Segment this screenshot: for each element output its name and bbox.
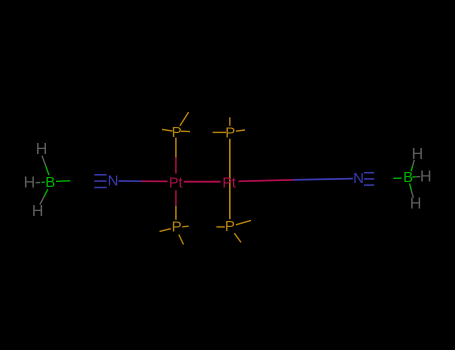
svg-text:N: N xyxy=(108,173,119,190)
svg-text:H: H xyxy=(412,146,424,163)
wire B-C (left, green) xyxy=(56,180,70,183)
methyl of P4 up-right xyxy=(236,220,251,224)
triple bond N#C right line1 xyxy=(364,172,374,174)
svg-text:H: H xyxy=(32,203,44,220)
svg-text:N: N xyxy=(353,170,364,187)
svg-text:H: H xyxy=(410,196,422,213)
wire H-B (left left H to B, green half) xyxy=(42,181,45,183)
wire N-Pt (left, crimson half) xyxy=(142,180,168,182)
methyl of P1 left xyxy=(162,129,172,131)
bond Pt-Pt xyxy=(184,181,221,183)
wire B-H (right right, green half) xyxy=(412,176,416,178)
methyl of P3 up xyxy=(229,117,231,126)
wire B-H (left bottom, green half) xyxy=(44,189,48,197)
triple bond C#N left line3 xyxy=(94,187,106,189)
wire Pt-N (right, blue half) xyxy=(294,179,353,180)
wire C-B (right, green) xyxy=(393,177,401,179)
methyl of P2 right xyxy=(182,225,189,228)
svg-text:P: P xyxy=(225,124,235,141)
svg-text:P: P xyxy=(225,218,235,235)
wire N-Pt (left, blue half) xyxy=(119,180,142,182)
svg-text:Pt: Pt xyxy=(169,174,183,191)
wire H-B (left top H to B, upper gray half) xyxy=(42,156,46,166)
wire H-B (left left H to B, gray half) xyxy=(36,182,41,184)
svg-text:B: B xyxy=(403,169,413,186)
methyl of P2 left xyxy=(160,229,171,232)
bond Pt1-P1 (up, crimson half) xyxy=(175,157,177,173)
bond Pt2-P3-P4 (continuous orange vertical) xyxy=(229,139,231,219)
svg-text:H: H xyxy=(36,141,48,158)
wire B-H (left bottom, gray half) xyxy=(40,197,44,205)
svg-text:Pt: Pt xyxy=(222,175,236,192)
svg-text:P: P xyxy=(172,218,182,235)
wire Pt-N (right, crimson half) xyxy=(238,180,293,181)
triple bond C#N left line1 xyxy=(94,174,106,176)
svg-text:H: H xyxy=(420,168,432,185)
wire B-H (right bottom, green half) xyxy=(410,183,412,190)
wire H-B (left top H to B, lower green half) xyxy=(46,166,49,176)
svg-text:P: P xyxy=(172,124,182,141)
wire B-H (right bottom, gray half) xyxy=(411,190,413,197)
methyl of P2 down-right xyxy=(179,235,184,245)
methyl of P3 left xyxy=(213,131,226,133)
methyl of P1 up-right xyxy=(180,112,189,126)
wire B-H (right right, gray half) xyxy=(416,176,420,178)
triple bond N#C right line2 xyxy=(364,178,374,180)
bond Pt1-P1 (up, orange half) xyxy=(175,138,177,158)
svg-text:H: H xyxy=(24,175,36,192)
wire B-H (right top, gray half) xyxy=(413,160,415,166)
wire B-H (right top, green half) xyxy=(411,166,413,172)
triple bond C#N left line2 xyxy=(94,180,106,182)
methyl of P3 right xyxy=(236,130,245,131)
bond Pt1-P2 (down, orange half) xyxy=(175,206,177,220)
methyl of P1 right xyxy=(181,130,190,132)
bond Pt1-P2 (down, crimson half) xyxy=(175,190,177,206)
methyl of P4 down-right xyxy=(234,233,241,242)
svg-text:B: B xyxy=(45,174,55,191)
methyl of P4 left xyxy=(216,226,224,228)
triple bond N#C right line3 xyxy=(364,184,374,186)
